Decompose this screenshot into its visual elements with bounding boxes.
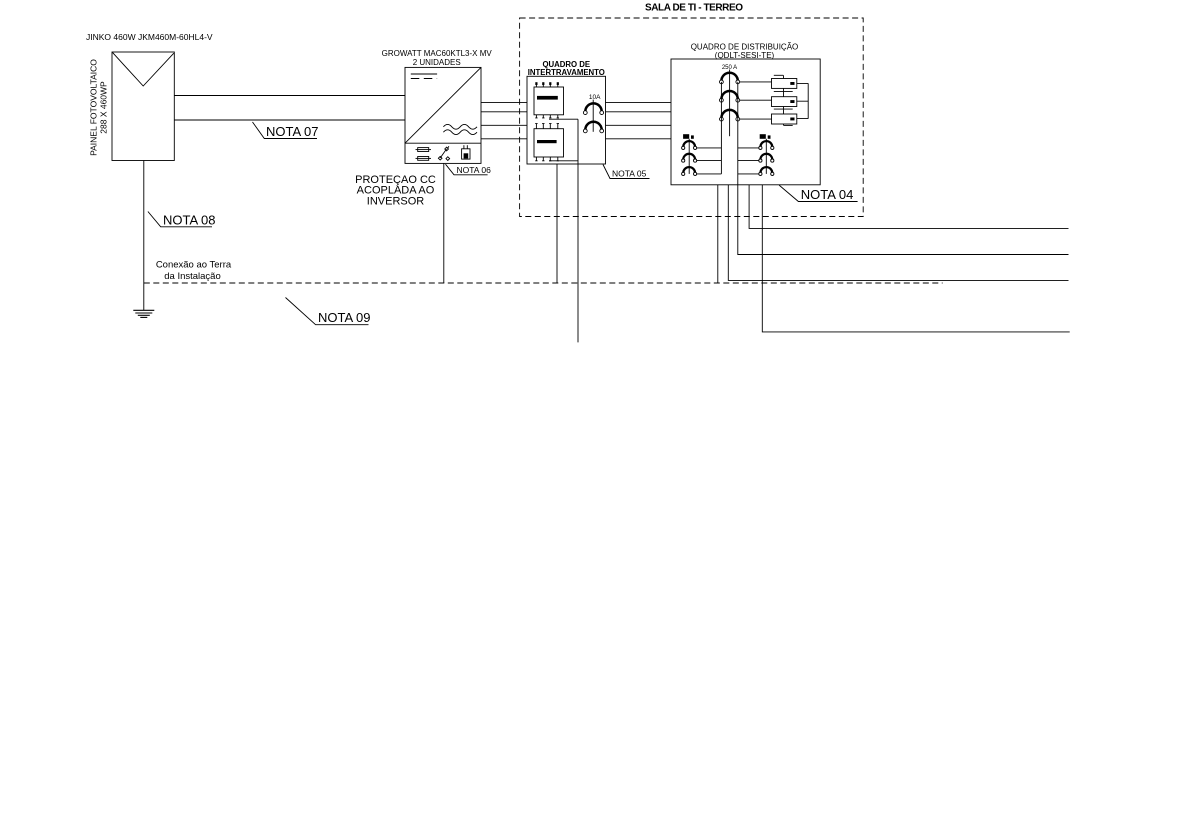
wire K2 to interlock bus [549,160,578,162]
wire panel to QDLT N [606,138,672,140]
wire interlock vertical to sistema [577,119,579,342]
note NOTA 05 [603,165,650,179]
DPS icon (inverter surge protection) [462,145,470,159]
wire QDLT neutral to N bar [762,185,1069,332]
PV panel (modulo fotovoltaico) [112,52,174,161]
svg-text:NOTA 06: NOTA 06 [457,165,492,175]
breaker CB1 10A bipolar [583,100,603,133]
contactor K1 [534,82,564,118]
label: QUADRO DE INTERTRAVAMENTO [528,60,605,77]
wire breaker to fuse F3a [740,118,772,120]
svg-text:NOTA 07: NOTA 07 [266,124,319,139]
wire K1 to interlock bus [549,118,578,120]
note NOTA 06 [446,164,492,175]
label: inverter model [382,49,493,67]
svg-text:NOTA 08: NOTA 08 [163,212,216,227]
svg-text:288 X 460WP: 288 X 460WP [99,81,109,134]
breaker CB3 tripolar (left feeder) [682,134,697,175]
label: QUADRO DE DISTRIBUICAO (QDLT-SESI-TE) [691,43,799,61]
wire QDLT feeder phase C to loads [728,185,1068,281]
note NOTA 04 [779,185,858,202]
wire QDLT feeder phase A to loads [749,185,1068,229]
wire panel to QDLT L3 [606,124,672,126]
wire inverter AC N [481,138,527,140]
label: PROTECAO CC ACOPLADA AO INVERSOR [355,174,436,207]
wire inverter earth to dashed bus [443,163,445,283]
wire PV positive to inverter [174,95,405,97]
label: Conexao ao Terra da Instalacao [156,260,232,283]
note NOTA 09 [286,298,371,326]
contactor K2 [534,124,564,161]
svg-text:GROWATT MAC60KTL3-X MV: GROWATT MAC60KTL3-X MV [382,49,493,58]
panel box: quadro de intertravamento [527,76,606,164]
ground (PV array earth) [133,310,154,317]
svg-text:PAINEL FOTOVOLTAICO: PAINEL FOTOVOLTAICO [89,59,99,156]
breaker CB2 250A tripolar [720,70,740,137]
wire intertravamento earth [556,164,558,283]
wire panel to QDLT L2 [606,111,672,113]
inverter U1 (GROWATT) [405,67,481,163]
boundary: sala de TI dashed box [520,18,864,217]
wire 250A left terminal bus [720,82,722,174]
svg-text:NOTA 05: NOTA 05 [612,169,647,179]
svg-text:10A: 10A [589,94,601,101]
wire inverter AC L1 [481,101,527,103]
fuse pair icon (inverter DC protection) [416,148,432,161]
wire inverter AC L2 [481,111,527,113]
fuse bank (3 NH fuses) [772,75,797,125]
svg-text:NOTA 04: NOTA 04 [801,187,854,202]
svg-text:NOTA 09: NOTA 09 [318,310,371,325]
panel box: QDLT-SESI-TE [671,59,820,185]
wire inverter AC L3 [481,124,527,126]
svg-text:INVERSOR: INVERSOR [367,195,425,207]
wire PV negative to inverter [174,119,405,121]
note NOTA 08 [148,212,216,228]
wire 250A right terminal bus (continues below panel) [738,82,1069,255]
wire CB3 poles to left bus [697,148,722,174]
wire QDLT earth drop [717,185,719,283]
wire breaker to fuse F2a [740,99,772,101]
svg-text:2 UNIDADES: 2 UNIDADES [413,58,461,67]
wire: dashed earth bus (Conexao ao Terra) [144,282,943,284]
note NOTA 07 [253,122,319,139]
breaker CB4 tripolar (right feeder) [759,134,774,175]
DC switch icon (inverter DC protection) [438,146,449,160]
svg-text:INTERTRAVAMENTO: INTERTRAVAMENTO [528,68,605,77]
svg-text:JINKO 460W JKM460M-60HL4-V: JINKO 460W JKM460M-60HL4-V [86,32,213,42]
svg-text:da Instalação: da Instalação [164,271,221,282]
svg-text:SALA DE TI - TERREO: SALA DE TI - TERREO [645,3,743,14]
svg-text:Conexão ao Terra: Conexão ao Terra [156,260,232,271]
wire breaker to fuse F1a [740,81,772,83]
wire fuse outputs common bus [797,83,808,118]
wire panel to QDLT L1 [606,101,672,103]
wire CB4 poles to right bus [738,148,759,174]
wire PV frame to earth [143,161,145,311]
